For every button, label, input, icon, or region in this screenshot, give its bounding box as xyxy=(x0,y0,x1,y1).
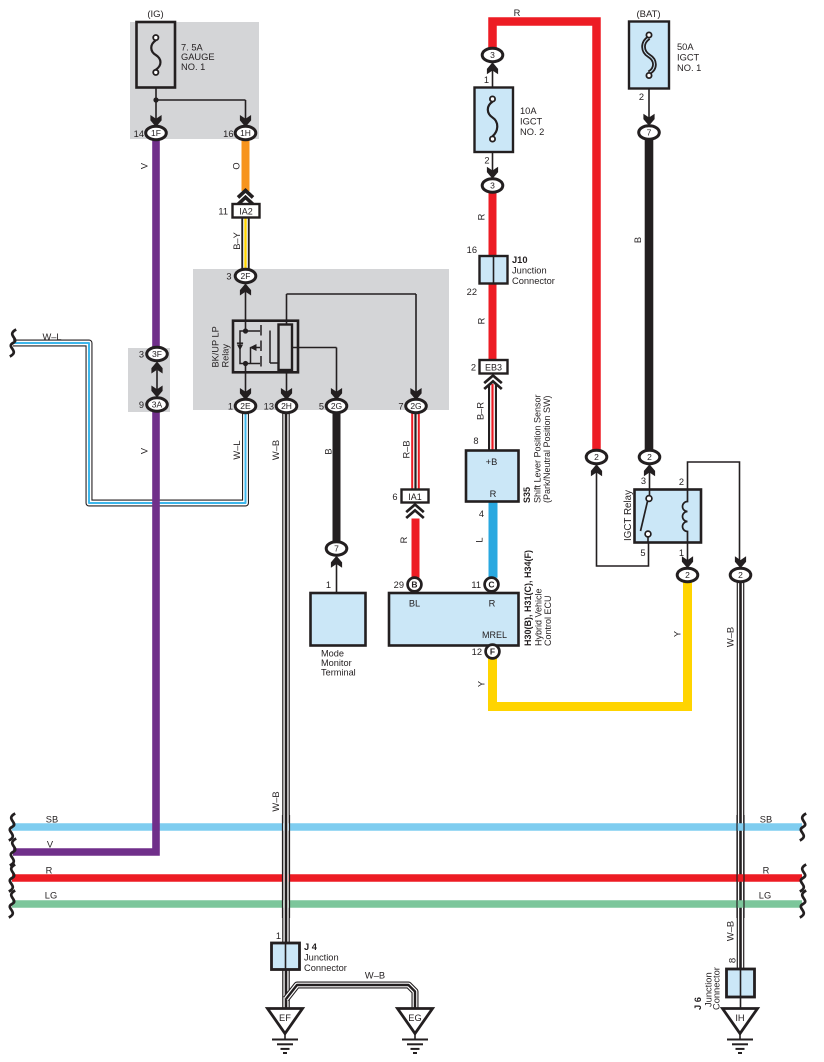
break symbol R left xyxy=(9,865,15,892)
wire relay pin 2 to W-B connector xyxy=(679,462,740,562)
svg-text:6: 6 xyxy=(392,492,397,502)
svg-text:W–L: W–L xyxy=(232,440,242,459)
svg-text:4: 4 xyxy=(479,509,484,519)
connector 2 red branch xyxy=(586,450,607,476)
svg-text:2G: 2G xyxy=(410,401,421,411)
label SB right xyxy=(760,815,772,825)
label V left xyxy=(47,840,54,850)
label B wire right xyxy=(633,237,643,243)
ECU pin 29 (B) xyxy=(394,578,422,592)
svg-text:B: B xyxy=(633,237,643,243)
label Park/Neutral Position SW xyxy=(542,395,552,503)
connector pin 9 (3A) xyxy=(139,398,167,412)
wire L blue from S35 R to ECU pin C xyxy=(489,502,498,578)
label W-L xyxy=(42,332,61,342)
label R wire below IA1 xyxy=(399,536,409,543)
svg-text:B–R: B–R xyxy=(476,402,486,420)
svg-text:1: 1 xyxy=(679,548,684,558)
label R-B wire xyxy=(402,440,412,458)
wire relay pin 3 xyxy=(641,465,650,495)
svg-text:2F: 2F xyxy=(241,271,251,281)
wire W-L from left edge to 2E xyxy=(13,343,246,503)
svg-text:10A: 10A xyxy=(520,106,537,116)
break symbol LG right xyxy=(800,891,806,918)
svg-text:2: 2 xyxy=(484,156,489,166)
svg-text:O: O xyxy=(232,162,242,169)
svg-text:7: 7 xyxy=(334,544,339,554)
svg-text:NO. 1: NO. 1 xyxy=(181,62,205,72)
svg-text:3: 3 xyxy=(490,181,495,191)
label Mode Monitor Terminal xyxy=(321,649,356,678)
svg-text:J 4: J 4 xyxy=(304,942,318,952)
wire to mode monitor terminal xyxy=(336,556,338,593)
connector pin 13 (2H) xyxy=(264,399,297,413)
svg-text:R: R xyxy=(514,8,521,18)
break symbol W-L left xyxy=(10,330,16,357)
ground IH xyxy=(723,1009,758,1054)
connector pin 5 (2G) xyxy=(319,399,347,413)
svg-text:11: 11 xyxy=(218,207,228,217)
wire Y yellow from ECU MREL pin F to IGCT relay pin1 connector xyxy=(493,582,688,707)
svg-text:2: 2 xyxy=(679,477,684,487)
junction EB3 arrows xyxy=(484,376,502,390)
svg-text:Shift Lever Position Sensor: Shift Lever Position Sensor xyxy=(533,394,543,503)
relay label BK/UP LP Relay xyxy=(211,326,231,367)
svg-text:11: 11 xyxy=(471,580,481,590)
svg-text:LG: LG xyxy=(45,891,57,901)
svg-text:EB3: EB3 xyxy=(485,363,502,373)
ECU internal labels xyxy=(409,599,507,641)
wire B black from fuse 50A IGCT NO.1 to IGCT relay connector 2 xyxy=(645,139,654,451)
label Y wire left xyxy=(477,681,487,687)
break symbol SB right xyxy=(800,814,806,841)
label B-R wire xyxy=(476,402,486,420)
svg-text:7: 7 xyxy=(398,402,403,412)
svg-text:SB: SB xyxy=(760,815,772,825)
wire B-R from EB3 to S35 +B xyxy=(488,384,497,451)
pin 5 label xyxy=(640,548,645,558)
wire W-B left over buses xyxy=(283,815,290,918)
mode monitor terminal box xyxy=(311,593,366,646)
svg-text:Terminal: Terminal xyxy=(321,668,356,678)
fuse 50A IGCT NO.1 xyxy=(629,22,669,89)
label B wire xyxy=(324,448,334,454)
svg-text:(Park/Neutral Position SW): (Park/Neutral Position SW) xyxy=(542,395,552,503)
label L wire xyxy=(475,537,485,542)
junction connector J10 xyxy=(467,245,508,297)
ECU pin 12 (F) xyxy=(472,645,500,659)
svg-text:3: 3 xyxy=(226,272,231,282)
wire W-B branch to ground EG xyxy=(286,985,415,1009)
svg-text:B: B xyxy=(411,580,417,590)
label Control ECU xyxy=(543,595,553,646)
wire relay pin 1 to connector xyxy=(687,543,689,563)
svg-text:2: 2 xyxy=(471,363,476,373)
connector pin 1 (2E) arrow xyxy=(240,388,251,400)
svg-text:V: V xyxy=(140,162,150,169)
connector pin 3 (2F) xyxy=(226,269,255,295)
wire fuse output with junction xyxy=(153,88,245,121)
svg-text:3: 3 xyxy=(139,350,144,360)
relay coil L1 xyxy=(279,325,293,371)
wire B-Y from IA2 to 2F xyxy=(241,218,249,270)
connector pin 1 (2E) xyxy=(228,399,256,413)
connector pin 16 (1H) xyxy=(223,115,256,140)
wire W-B from 2H down to ground EF xyxy=(282,413,290,1009)
connector 3 lower xyxy=(482,167,503,193)
svg-text:(IG): (IG) xyxy=(147,9,163,20)
wire R-B from 7-2G to IA1 xyxy=(411,413,420,490)
break symbol V left xyxy=(10,839,16,866)
wire R loop from fuse IGCT NO.2 over the top to IGCT relay branch xyxy=(493,22,597,451)
svg-text:8: 8 xyxy=(728,958,739,963)
svg-text:1: 1 xyxy=(326,580,331,590)
value label 10A IGCT NO.2 xyxy=(520,106,544,137)
ECU pin 11 (C) xyxy=(471,578,498,592)
svg-text:W–B: W–B xyxy=(271,791,281,811)
node B wire down to 2E xyxy=(245,364,247,396)
svg-text:W–B: W–B xyxy=(726,627,736,647)
ground EG xyxy=(398,1009,433,1054)
svg-text:Control ECU: Control ECU xyxy=(543,595,553,646)
label W-B wire xyxy=(271,440,281,460)
svg-text:1: 1 xyxy=(484,75,489,85)
label R left xyxy=(46,866,53,876)
wire fuse to connector 7 xyxy=(639,89,649,121)
junction connector IA1 arrows xyxy=(406,505,424,519)
svg-text:Junction: Junction xyxy=(304,953,339,963)
svg-text:SB: SB xyxy=(46,815,58,825)
connector pair arrows 3F-3A xyxy=(151,362,162,398)
ground EF xyxy=(268,1009,303,1054)
coil right wire to 5-2G xyxy=(292,348,337,396)
svg-text:J10: J10 xyxy=(512,255,528,265)
svg-text:EF: EF xyxy=(279,1013,291,1023)
svg-text:5: 5 xyxy=(319,402,324,412)
junction EB3 xyxy=(471,360,508,374)
label J4 Junction Connector xyxy=(304,942,347,973)
shift lever position sensor S35 box xyxy=(466,451,519,502)
junction block (IG) fuse box background xyxy=(130,22,259,139)
label Shift Lever Position Sensor xyxy=(533,394,543,503)
label (IG) xyxy=(147,9,163,20)
connector pin 5 (2G) arrow xyxy=(331,388,342,400)
fuse 10A IGCT NO.2 xyxy=(475,88,514,153)
svg-text:50A: 50A xyxy=(677,42,694,52)
svg-text:B: B xyxy=(324,448,334,454)
break symbol R right xyxy=(800,865,806,892)
label (BAT) xyxy=(636,9,660,20)
svg-text:IGCT Relay: IGCT Relay xyxy=(623,490,634,541)
svg-text:13: 13 xyxy=(264,402,274,412)
svg-text:GAUGE: GAUGE xyxy=(181,52,215,62)
wire V purple from 1F down to left edge bus xyxy=(13,139,156,852)
pin 8 label S35 xyxy=(473,436,478,446)
label Y wire right xyxy=(673,631,683,637)
label LG right xyxy=(759,891,771,901)
svg-text:R: R xyxy=(490,489,497,499)
svg-text:IGCT: IGCT xyxy=(520,117,543,127)
svg-text:2H: 2H xyxy=(281,401,292,411)
svg-text:C: C xyxy=(488,580,494,590)
svg-text:1F: 1F xyxy=(151,128,161,138)
connector 3 upper xyxy=(482,48,503,74)
svg-text:14: 14 xyxy=(134,129,144,139)
connector pin 3 (3F) xyxy=(139,347,167,361)
wire O orange 1H to IA2 xyxy=(242,139,250,191)
fuse 7.5A GAUGE NO.1 xyxy=(137,22,176,88)
svg-text:3A: 3A xyxy=(152,400,163,410)
svg-text:Connector: Connector xyxy=(512,276,555,286)
wire J6 to ground IH xyxy=(740,997,742,1009)
svg-text:Hybrid Vehicle: Hybrid Vehicle xyxy=(534,588,544,646)
svg-text:29: 29 xyxy=(394,580,404,590)
value label 7.5A GAUGE NO.1 xyxy=(181,43,215,72)
svg-text:IA1: IA1 xyxy=(408,492,422,502)
junction connector J4 xyxy=(272,943,300,970)
IGCT relay switch pins stubs xyxy=(648,490,650,543)
svg-text:R: R xyxy=(489,599,496,609)
svg-text:Y: Y xyxy=(673,631,683,637)
svg-text:2: 2 xyxy=(647,452,652,462)
relay input wire 2F to node A xyxy=(245,284,247,331)
svg-text:L: L xyxy=(475,537,485,542)
wire R from IA1 to ECU pin B xyxy=(412,519,420,578)
svg-text:22: 22 xyxy=(467,287,477,297)
junction connector IA1 xyxy=(392,490,428,503)
break symbol SB left xyxy=(9,814,15,841)
svg-text:3: 3 xyxy=(490,50,495,60)
svg-text:IGCT: IGCT xyxy=(677,53,700,63)
connector 2 black branch xyxy=(639,450,660,476)
node B junction dot xyxy=(243,361,248,366)
bus wire R xyxy=(12,874,802,882)
svg-text:BL: BL xyxy=(409,599,420,609)
svg-text:W–B: W–B xyxy=(365,971,385,981)
svg-text:W–B: W–B xyxy=(271,440,281,460)
svg-text:R: R xyxy=(477,317,487,324)
pin 4 label S35 xyxy=(479,509,484,519)
label W-B right upper xyxy=(726,627,736,647)
label J10 Junction Connector xyxy=(512,255,555,286)
svg-text:9: 9 xyxy=(139,400,144,410)
svg-text:R: R xyxy=(763,866,770,876)
svg-text:R: R xyxy=(477,213,487,220)
svg-text:J 6: J 6 xyxy=(693,997,703,1010)
svg-text:1: 1 xyxy=(276,931,281,941)
svg-text:W–L: W–L xyxy=(42,332,61,342)
svg-text:1H: 1H xyxy=(240,128,251,138)
diode D1 branch with diode xyxy=(237,331,246,364)
bus wire LG xyxy=(12,900,802,908)
svg-text:3: 3 xyxy=(641,476,646,486)
label W-B right lower xyxy=(726,921,736,941)
label V wire lower xyxy=(140,447,150,454)
svg-text:2: 2 xyxy=(738,570,743,580)
connector block 3F/3A background xyxy=(128,348,170,412)
label W-B bottom xyxy=(365,971,385,981)
svg-text:2: 2 xyxy=(594,452,599,462)
svg-text:Relay: Relay xyxy=(221,344,231,368)
svg-text:Connector: Connector xyxy=(304,963,347,973)
wire R from connector 3 to J10 and EB3 xyxy=(489,192,497,361)
svg-text:IA2: IA2 xyxy=(239,207,253,217)
break symbol LG left xyxy=(9,891,15,918)
coil top wire to branch xyxy=(287,294,417,395)
junction connector IA2 arrows xyxy=(238,191,253,205)
transistor Q1 drain/source/arrow xyxy=(246,331,261,364)
label R wire lower xyxy=(477,317,487,324)
label Hybrid Vehicle xyxy=(534,588,544,646)
svg-text:NO. 2: NO. 2 xyxy=(520,127,544,137)
svg-text:V: V xyxy=(140,447,150,454)
svg-text:2E: 2E xyxy=(240,401,251,411)
connector pin 13 (2H) arrow xyxy=(281,388,292,400)
coil bottom wire to 2H xyxy=(286,370,288,395)
label W-B left mid xyxy=(271,791,281,811)
pin 8 label J6 xyxy=(728,958,739,963)
svg-text:(BAT): (BAT) xyxy=(636,9,660,20)
svg-text:12: 12 xyxy=(472,647,482,657)
IGCT relay box xyxy=(635,490,702,543)
label R top xyxy=(514,8,521,18)
svg-text:16: 16 xyxy=(223,129,233,139)
connector pin 7 (2G) xyxy=(398,399,426,413)
bus wire SB xyxy=(12,823,802,831)
svg-text:1: 1 xyxy=(228,402,233,412)
hybrid vehicle control ECU box xyxy=(389,593,519,646)
wire connector to fuse xyxy=(484,63,493,88)
svg-text:16: 16 xyxy=(467,245,477,255)
svg-text:8: 8 xyxy=(473,436,478,446)
junction connector J6 xyxy=(727,969,755,997)
svg-text:LG: LG xyxy=(759,891,771,901)
label B-Y wire xyxy=(232,232,242,250)
svg-text:H30(B), H31(C), H34(F): H30(B), H31(C), H34(F) xyxy=(523,550,533,646)
wire relay pin 5 to connector 2 xyxy=(597,465,649,566)
svg-text:7. 5A: 7. 5A xyxy=(181,43,204,53)
svg-text:2G: 2G xyxy=(331,401,342,411)
svg-text:NO. 1: NO. 1 xyxy=(677,63,701,73)
connector pin 14 (1F) xyxy=(134,115,167,140)
label IGCT Relay xyxy=(623,490,634,541)
label J6 Junction Connector xyxy=(693,967,722,1010)
svg-text:+B: +B xyxy=(486,457,498,467)
wire fuse to connector 3 lower xyxy=(484,152,492,173)
wire W-B right from IGCT relay pin2 connector to J6/IH xyxy=(737,582,745,970)
BK/UP LP relay internal box xyxy=(233,321,298,373)
svg-text:B–Y: B–Y xyxy=(232,232,242,250)
connector 2 yellow xyxy=(677,556,698,582)
IGCT relay switch xyxy=(641,496,652,537)
connector pair gap patch xyxy=(147,359,167,400)
svg-text:2: 2 xyxy=(639,92,644,102)
junction connector IA2 xyxy=(218,204,259,218)
label S35 xyxy=(522,487,532,503)
label R wire upper xyxy=(477,213,487,220)
label LG left xyxy=(45,891,57,901)
connector 7 mode monitor xyxy=(326,542,347,568)
svg-text:Y: Y xyxy=(477,681,487,687)
svg-text:R: R xyxy=(399,536,409,543)
svg-text:MREL: MREL xyxy=(482,630,507,640)
label R right xyxy=(763,866,770,876)
connector 2 W-B right xyxy=(730,556,751,582)
node A junction dot xyxy=(243,328,248,333)
wire B black from 5-2G to mode monitor connector 7 xyxy=(333,413,341,543)
value label 50A IGCT NO.1 xyxy=(677,42,701,73)
pin 1 label mode monitor xyxy=(326,580,331,590)
svg-text:Connector: Connector xyxy=(712,967,722,1010)
label O wire xyxy=(232,162,242,169)
label V wire xyxy=(140,162,150,169)
svg-text:Monitor: Monitor xyxy=(321,658,352,668)
svg-text:EG: EG xyxy=(408,1013,421,1023)
label W-L wire xyxy=(232,440,242,459)
relay output side line xyxy=(270,331,279,364)
svg-text:IH: IH xyxy=(735,1013,744,1023)
svg-text:Mode: Mode xyxy=(321,649,344,659)
svg-text:2: 2 xyxy=(685,570,690,580)
svg-text:Junction: Junction xyxy=(512,266,547,276)
pin 1 label xyxy=(679,548,684,558)
connector 7 xyxy=(639,114,660,140)
svg-text:R: R xyxy=(46,866,53,876)
svg-text:W–B: W–B xyxy=(726,921,736,941)
svg-text:V: V xyxy=(47,840,54,850)
label SB left xyxy=(46,815,58,825)
svg-text:5: 5 xyxy=(640,548,645,558)
svg-text:3F: 3F xyxy=(152,349,162,359)
connector pin 7 (2G) arrow xyxy=(410,388,421,400)
IGCT relay coil xyxy=(683,490,688,543)
svg-text:F: F xyxy=(490,647,495,657)
wire W-B right edge lines over buses xyxy=(737,815,744,918)
transistor Q1 gate dashed line xyxy=(260,325,262,368)
BK/UP LP relay block background xyxy=(193,269,449,410)
label H30(B), H31(C), H34(F) xyxy=(523,550,533,646)
pin 1 label J4 xyxy=(276,931,281,941)
svg-text:R–B: R–B xyxy=(402,440,412,458)
svg-text:7: 7 xyxy=(647,128,652,138)
svg-text:BK/UP LP: BK/UP LP xyxy=(211,326,221,367)
svg-text:S35: S35 xyxy=(522,487,532,503)
